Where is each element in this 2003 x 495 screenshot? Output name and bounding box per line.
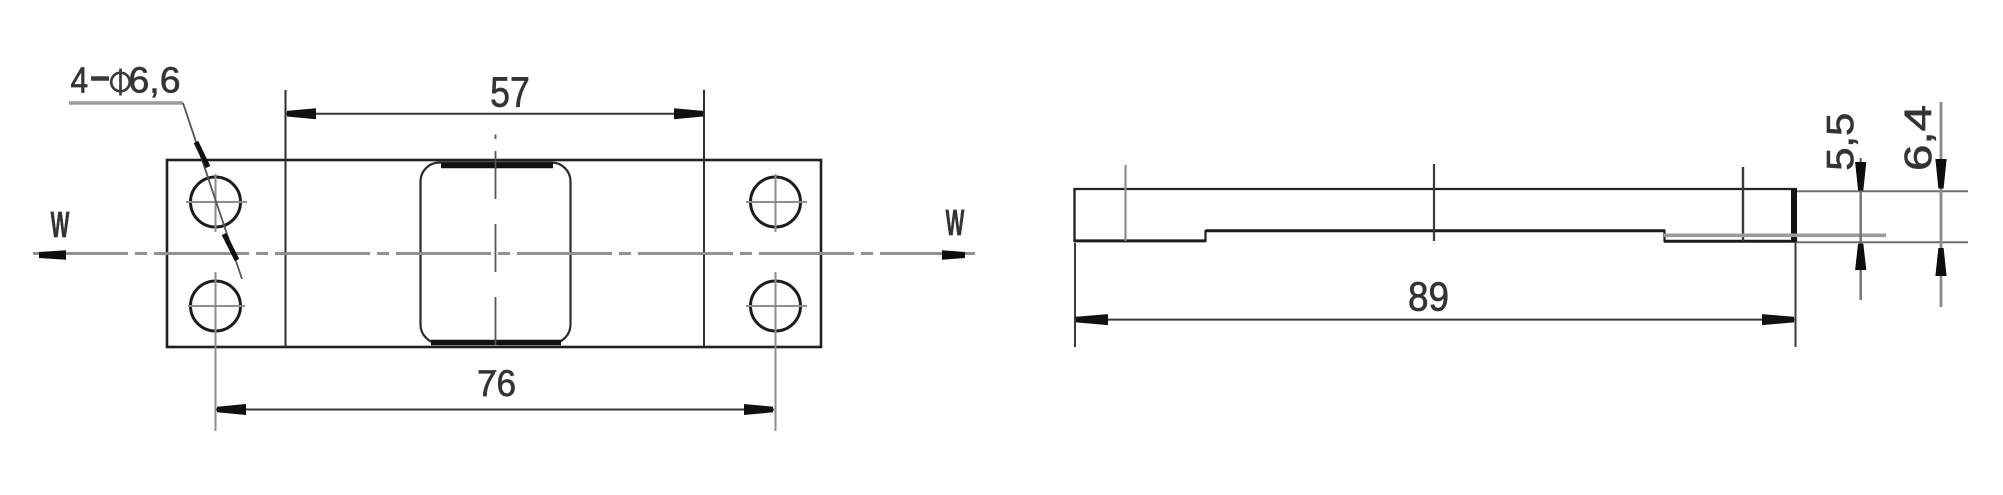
side view recess step right — [1663, 230, 1665, 242]
side view bottom-right edge — [1664, 240, 1797, 243]
dimension 89 right extension — [1795, 243, 1797, 347]
bottom edge extension line (right) — [1797, 241, 1968, 243]
load button thick top edge — [441, 163, 553, 169]
svg-text:89: 89 — [1408, 275, 1449, 320]
left end-block division line (with 57 extension above) — [285, 90, 287, 347]
recess extension line (right, gray) — [1664, 234, 1886, 238]
label dash — [91, 76, 109, 81]
dimension 5,5 vertical line — [1859, 158, 1861, 300]
dimension 6,4 vertical line — [1940, 102, 1943, 307]
dimension 57 line — [286, 113, 704, 115]
side view tick line 3 — [1742, 167, 1744, 241]
phi symbol — [111, 73, 130, 92]
svg-text:5,5: 5,5 — [1820, 113, 1862, 171]
side view recess line — [1206, 229, 1666, 232]
side view bottom-left edge — [1074, 239, 1207, 242]
side view recess step left — [1204, 230, 1206, 242]
svg-text:W: W — [946, 204, 965, 244]
load button thick bottom edge — [431, 340, 561, 346]
label underline (leader shoulder) — [69, 101, 183, 105]
side view tick line 2 — [1433, 164, 1435, 241]
svg-text:76: 76 — [477, 362, 516, 404]
hole bottom-left — [191, 281, 241, 331]
dimension 89 line — [1075, 319, 1795, 321]
leader thick segment 1 — [196, 142, 208, 167]
center load button rounded square — [421, 163, 571, 344]
dimension 76 line — [216, 409, 774, 411]
side view top edge — [1074, 188, 1798, 190]
hole bottom-right crosshair / 76 extension line — [746, 305, 807, 307]
right section arrow — [942, 250, 965, 260]
hole top-left — [191, 177, 241, 227]
dimension 89 left extension — [1074, 243, 1076, 347]
hole bottom-left crosshair / 76 extension line — [188, 305, 245, 307]
svg-text:W: W — [51, 206, 70, 246]
svg-text:6,4: 6,4 — [1898, 105, 1940, 171]
hole top-left crosshair — [186, 201, 247, 203]
left section arrow — [39, 250, 66, 260]
svg-text:4: 4 — [71, 61, 89, 101]
svg-text:6,6: 6,6 — [129, 60, 181, 101]
side view thick right edge — [1791, 189, 1797, 242]
outer plate outline (top view) — [167, 160, 821, 347]
leader thick segment 2 — [224, 234, 237, 260]
svg-text:57: 57 — [490, 68, 530, 116]
leader diagonal line to hole — [183, 103, 242, 279]
W-W section centerline (dash-dot) — [33, 252, 975, 255]
load button vertical dashed centerline — [495, 135, 497, 140]
top edge extension line (right) — [1797, 190, 1968, 192]
right end-block division line (with 57 extension above) — [703, 90, 705, 347]
hole bottom-right — [751, 281, 801, 331]
hole top-right — [751, 177, 801, 227]
side view tick line 1 — [1124, 165, 1126, 241]
hole top-right crosshair — [746, 201, 807, 203]
side view left edge — [1073, 188, 1075, 242]
